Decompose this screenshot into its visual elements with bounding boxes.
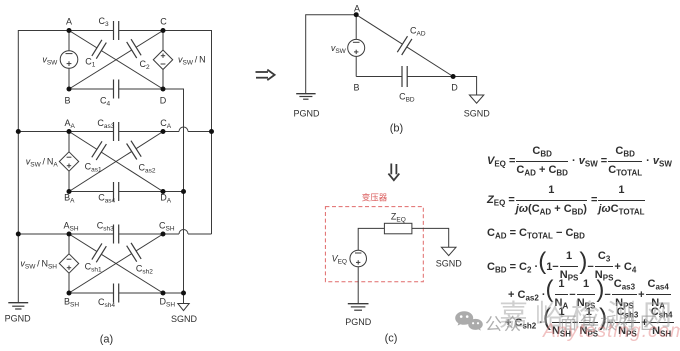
node BA [67, 189, 72, 194]
capacitor Csh4 [114, 284, 119, 303]
wire diagonal CA-BA [69, 132, 163, 192]
svg-text:PGND: PGND [293, 109, 320, 119]
svg-text:C2: C2 [140, 59, 151, 71]
svg-text:SGND: SGND [464, 109, 491, 119]
svg-text:CAD: CAD [410, 26, 426, 38]
node C [161, 28, 166, 33]
ground SGND (a) [178, 293, 189, 311]
wire row ASH-CSH (a) [18, 233, 179, 235]
wire C to right rail [163, 31, 212, 235]
capacitor C4 [114, 80, 119, 99]
node A (b) [354, 12, 359, 17]
junction left rail at ASH [16, 232, 21, 237]
wire row B-D (a) [69, 88, 163, 90]
arrow right implies (a to b) [256, 70, 275, 81]
capacitor Cas4 [114, 182, 119, 201]
watermark wechat icon [454, 310, 484, 334]
wire diagonal A-D (b) [356, 15, 453, 77]
equation CBD line 1 [487, 250, 636, 283]
wire row B-D (b) [356, 76, 453, 78]
junction right rail at CA [209, 129, 214, 134]
wire diamond column C-D [162, 31, 164, 90]
svg-text:BSH: BSH [64, 297, 79, 309]
ground PGND (c) [348, 304, 369, 311]
svg-text:DA: DA [160, 193, 172, 205]
svg-text:VEQ: VEQ [332, 254, 347, 266]
wire source column ASH-BSH [68, 234, 70, 293]
svg-text:Csh1: Csh1 [85, 262, 102, 274]
wire CSH hop to right rail [188, 233, 212, 235]
equation CAD [487, 227, 585, 239]
watermark bottom strip [0, 348, 680, 351]
voltage source VEQ [350, 250, 367, 267]
wire VEQ to ZEQ (c) [358, 228, 384, 250]
capacitor Cas1 [92, 141, 107, 160]
svg-text:(b): (b) [390, 123, 403, 135]
svg-text:PGND: PGND [5, 314, 32, 324]
arrow down implies (b to c) [388, 164, 399, 181]
capacitor Csh3 [114, 225, 119, 244]
node D (b) [451, 74, 456, 79]
transformer dashed box [325, 207, 423, 282]
svg-text:C1: C1 [85, 57, 96, 69]
junction SGND rail at DA [181, 189, 186, 194]
svg-text:B: B [353, 83, 359, 93]
wire source column AA-BA [68, 132, 70, 192]
voltage source vSW (b) [348, 39, 365, 56]
wire diagonal C-B [69, 31, 163, 90]
node D [161, 87, 166, 92]
wire hop over SGND rail at CSH row [179, 230, 188, 235]
svg-text:vSW: vSW [331, 43, 347, 55]
impedance ZEQ box [384, 223, 412, 234]
wire A to PGND (b) [306, 15, 357, 94]
svg-text:变压器: 变压器 [362, 193, 388, 203]
svg-text:C3: C3 [99, 16, 110, 28]
svg-text:AA: AA [65, 118, 76, 130]
svg-text:B: B [64, 96, 70, 106]
dependent source vSW/N [153, 50, 172, 70]
svg-text:SGND: SGND [171, 314, 198, 324]
ground PGND (b) [296, 94, 315, 100]
svg-text:vSW / NSH: vSW / NSH [20, 259, 57, 271]
node DSH [161, 291, 166, 296]
dependent source vSW/NA [59, 152, 78, 171]
svg-text:Csh4: Csh4 [98, 297, 115, 309]
svg-text:ZEQ: ZEQ [391, 212, 406, 224]
svg-text:C4: C4 [100, 96, 111, 108]
wire VEQ to PGND (c) [357, 267, 359, 304]
svg-text:Cas3: Cas3 [97, 118, 114, 130]
capacitor Cas2 [127, 141, 142, 160]
wire diagonal AA-DA [69, 132, 163, 192]
equation VEQ [487, 144, 672, 178]
capacitor CAD [397, 36, 412, 55]
capacitor Csh2 [127, 243, 142, 262]
node A [67, 28, 72, 33]
svg-text:ASH: ASH [64, 221, 79, 233]
wire row AA-CA (a) [18, 131, 179, 133]
capacitor C1 [92, 40, 106, 59]
svg-text:(a): (a) [100, 334, 113, 346]
wire diagonal CSH-BSH [69, 234, 163, 293]
equation ZEQ [487, 183, 646, 217]
node DA [161, 189, 166, 194]
svg-text:Cas1: Cas1 [85, 162, 102, 174]
svg-text:DSH: DSH [160, 297, 176, 309]
voltage source vSW (a) [60, 51, 78, 69]
node AA [67, 129, 72, 134]
wire diagonal ASH-DSH [69, 234, 163, 293]
equation CBD line 3 [505, 306, 675, 339]
ground SGND (c) [441, 247, 456, 255]
wire hop over SGND rail at CA row [179, 127, 188, 131]
capacitor Cas3 [114, 122, 119, 141]
svg-text:C: C [160, 17, 167, 27]
svg-text:CSH: CSH [159, 221, 175, 233]
svg-text:vSW / N: vSW / N [178, 55, 206, 67]
watermark gongzhong text [485, 316, 523, 333]
wire row BSH-DSH (a) [69, 292, 184, 294]
node CA [161, 129, 166, 134]
capacitor C2 [127, 39, 141, 58]
wire ZEQ to SGND (c) [412, 228, 449, 247]
wire CA hop to right rail [188, 131, 212, 133]
svg-text:vSW / NA: vSW / NA [26, 157, 59, 169]
junction SGND rail at DSH [181, 291, 186, 296]
dependent source vSW/NSH [59, 254, 78, 273]
svg-text:vSW: vSW [42, 55, 58, 67]
wire row BA-DA (a) [69, 191, 184, 193]
svg-text:Csh3: Csh3 [97, 221, 114, 233]
watermark big gray text [499, 302, 679, 331]
node B [67, 87, 72, 92]
svg-text:PGND: PGND [345, 317, 372, 327]
wire top row A-C (a) [69, 30, 163, 32]
svg-text:CA: CA [160, 118, 172, 130]
capacitor C3 [114, 21, 119, 40]
wire D to SGND rail [163, 89, 184, 293]
capacitor CBD [402, 66, 407, 87]
watermark community gray text [560, 315, 660, 332]
svg-text:D: D [451, 83, 458, 93]
ground SGND (b) [469, 95, 483, 103]
svg-text:A: A [354, 4, 360, 14]
node BSH [67, 291, 72, 296]
svg-text:A: A [66, 17, 72, 27]
equation CBD line 2 [508, 278, 672, 311]
wire A-B source column (b) [355, 15, 357, 77]
svg-text:SGND: SGND [436, 259, 463, 269]
svg-text:Cas2: Cas2 [139, 163, 156, 175]
ground PGND (a) [8, 303, 28, 309]
capacitor Csh1 [92, 243, 107, 262]
watermark pink anytesting [543, 322, 680, 341]
junction left rail at AA [16, 129, 21, 134]
node CSH [161, 232, 166, 237]
svg-text:BA: BA [64, 193, 75, 205]
svg-text:(c): (c) [385, 333, 398, 345]
svg-text:D: D [160, 96, 167, 106]
node ASH [67, 232, 72, 237]
wire left PGND rail (a) [18, 31, 69, 303]
svg-text:CBD: CBD [399, 92, 415, 104]
wire D to SGND (b) [453, 77, 477, 96]
wire diagonal A-D [69, 31, 163, 90]
wire source column A-B [68, 31, 70, 90]
svg-text:Csh2: Csh2 [136, 264, 153, 276]
